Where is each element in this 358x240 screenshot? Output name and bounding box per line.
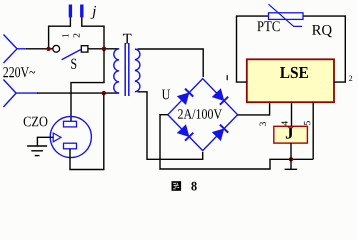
wire: LSE pin 4 to relay J — [291, 103, 293, 127]
pin label 4 (rotated) — [281, 121, 287, 125]
relay coil box J — [274, 126, 308, 143]
pin label 1 (tiny, LSE left) — [226, 75, 228, 80]
label J — [286, 127, 293, 138]
socket CZO top slot — [64, 121, 77, 127]
wire: bottom AC line to transformer — [37, 92, 119, 94]
label T — [123, 34, 132, 44]
wire: J bottom to node D — [290, 143, 292, 159]
wire: jog from switch node down-left to CZO top — [71, 49, 104, 122]
transformer T core — [125, 43, 129, 96]
wire: switch to transformer primary — [88, 48, 119, 50]
label LSE — [280, 67, 308, 78]
socket CZO bottom slot — [64, 143, 77, 149]
label PTC — [257, 21, 279, 31]
node junction dot C (lower rail / CZO loop) — [102, 91, 106, 95]
node junction dot A (switch left / j leg) — [46, 47, 50, 51]
thermistor PTC strike line — [269, 4, 303, 26]
pin label 3 (rotated) — [260, 122, 266, 126]
pin label 2 (tiny, LSE right) — [349, 76, 352, 81]
wire: bridge right corner to LSE pin 3 — [238, 103, 270, 115]
pin label 5 (rotated) — [304, 121, 310, 125]
wire: j contact right lead — [82, 17, 104, 46]
pin label 1 (rotated) — [62, 34, 68, 37]
AC input terminal top (chevron) — [4, 35, 28, 64]
wire: bridge left corner to bottom rail — [160, 115, 313, 169]
wire: LSE pin 1 loop (left side of PTC loop) — [237, 16, 269, 82]
caption 8 — [191, 182, 196, 191]
wire: j contact left lead — [49, 17, 71, 46]
wire: top line from input to switch — [26, 48, 53, 50]
label U — [162, 90, 170, 100]
label j — [91, 6, 96, 19]
label 2A/100V — [178, 109, 222, 119]
wire: LSE pin 2 loop (right side of PTC loop) — [303, 16, 345, 82]
diode D4 (bottom-right edge, points to right corner) — [213, 125, 229, 141]
label RQ — [312, 25, 332, 37]
node junction dot B (switch right / j leg) — [102, 47, 106, 51]
switch S blade — [62, 50, 81, 60]
thermistor PTC body — [269, 13, 304, 20]
switch S right terminal — [81, 46, 88, 52]
wire: CZO bottom loop — [70, 93, 104, 169]
caption glyph 图 (hand-drawn) — [172, 181, 182, 191]
node junction dot D (J coil / rail) — [289, 157, 293, 161]
ground symbol — [27, 146, 47, 156]
label S — [71, 59, 76, 69]
IC box LSE — [247, 59, 334, 102]
bridge rectifier diamond — [168, 79, 238, 151]
label CZO — [24, 117, 48, 127]
AC input terminal bottom (chevron) — [3, 80, 38, 108]
chassis stub below node D — [285, 159, 298, 169]
transformer T secondary winding — [135, 49, 140, 92]
wire: secondary top to bridge top — [138, 49, 204, 77]
label 220V~ — [3, 67, 35, 77]
transformer T primary winding — [114, 49, 119, 93]
socket CZO earth arrow — [53, 133, 61, 142]
diode D3 (bottom-left edge, points to bottom corner) — [178, 125, 194, 141]
pin label 2 (rotated) — [73, 34, 79, 38]
diode D1 (top-left edge, points to top corner) — [178, 89, 194, 105]
switch S left terminal — [53, 45, 60, 52]
relay contact j right bar — [80, 5, 83, 18]
ground lead wire — [37, 137, 53, 146]
relay contact j left bar — [69, 5, 72, 18]
wire: LSE pin 5 down to rail — [312, 103, 314, 160]
wire: secondary bottom to bridge bottom — [138, 92, 203, 160]
diode D2 (top-right edge, points to right corner) — [213, 89, 229, 105]
socket CZO circle — [50, 116, 91, 157]
